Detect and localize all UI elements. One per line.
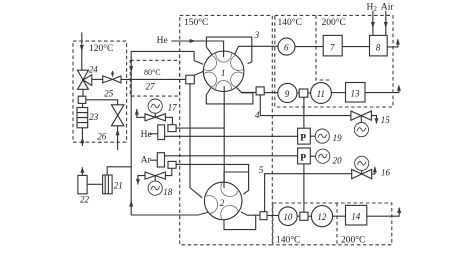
svg-text:6: 6	[284, 43, 289, 53]
detector 11	[311, 83, 332, 104]
vent after 14	[367, 208, 399, 216]
wire Ar to restrictor	[150, 159, 157, 161]
gauge 20	[316, 149, 330, 163]
wire square to 12	[308, 215, 311, 217]
wire P2 to square 10/12	[303, 164, 305, 212]
absorber 21	[103, 175, 113, 194]
svg-text:120°C: 120°C	[89, 43, 113, 54]
svg-text:24: 24	[89, 65, 99, 75]
valve 24 (3-way)	[78, 70, 92, 89]
wire 22 to 21	[87, 183, 103, 185]
rotary valve 2 slot SE	[221, 205, 239, 219]
vent arrow below 23	[80, 137, 84, 144]
He carrier arrow	[190, 39, 197, 43]
pressure regulator 18 gauge	[148, 181, 162, 195]
wire 12 to 14	[333, 215, 346, 217]
wire P1 to square 9/11	[303, 97, 305, 128]
carrier line valve1 S to valve2 N	[223, 86, 225, 184]
wire 80C line valve25 to port square	[121, 78, 186, 80]
vent after 13	[365, 86, 399, 93]
thermostat box 140C bottom	[273, 203, 392, 245]
gauge of valve 15	[360, 116, 362, 123]
port square 4	[256, 87, 264, 95]
regulator 17 valve	[145, 114, 165, 121]
svg-text:80°C: 80°C	[144, 68, 161, 77]
svg-text:8: 8	[376, 43, 381, 53]
fitting square 10/12	[300, 212, 308, 220]
svg-text:19: 19	[333, 133, 343, 143]
pump 22	[78, 175, 87, 193]
port square W of valve 1	[186, 75, 195, 84]
regulator 18 valve	[145, 172, 165, 179]
detector 9	[278, 83, 297, 102]
fitting square below valve 24	[78, 96, 86, 103]
methanator 14	[346, 205, 367, 225]
detector 10	[279, 207, 298, 226]
thermostat box 150C	[180, 15, 273, 244]
fitting square Ar carrier	[168, 161, 176, 168]
wire 10 to square	[297, 215, 300, 217]
svg-text:200°C: 200°C	[341, 235, 365, 246]
wire He carrier to valve 1	[176, 127, 224, 129]
svg-text:18: 18	[163, 187, 173, 197]
divider 140C/200C bottom	[336, 203, 338, 245]
valve 25	[103, 76, 121, 83]
rotary valve 1 stator top	[206, 37, 251, 64]
svg-text:17: 17	[168, 103, 178, 113]
vent arrow above 22	[80, 167, 84, 173]
wire 6 to 7	[295, 46, 323, 48]
svg-text:He: He	[157, 36, 168, 46]
Air line	[385, 11, 387, 35]
wire square to column 23	[82, 103, 84, 107]
valve 26	[111, 105, 124, 126]
svg-text:9: 9	[285, 89, 290, 99]
rotary valve 1 slot SW	[204, 72, 217, 87]
wire port4 to valve 15	[260, 95, 351, 116]
vent after valve 15	[371, 116, 376, 124]
valve 25 actuator arrow	[112, 71, 114, 77]
pressure sensor P1	[298, 128, 311, 144]
wire 11 to 13	[331, 92, 345, 94]
svg-text:10: 10	[283, 212, 293, 222]
rotary valve 1 slot S	[216, 81, 232, 91]
wire valve24 to square	[82, 89, 84, 96]
svg-text:25: 25	[104, 88, 114, 98]
wire Ar carrier to valve 2	[176, 164, 249, 172]
svg-text:140°C: 140°C	[276, 235, 300, 246]
vent arrow below 26	[116, 129, 120, 136]
svg-text:26: 26	[97, 132, 107, 142]
svg-text:14: 14	[351, 211, 361, 221]
methanator 7	[323, 35, 342, 56]
wire junction to absorber 21	[107, 167, 131, 175]
svg-text:7: 7	[330, 43, 335, 53]
wire 17 to fitting	[165, 117, 172, 124]
thermostat box 27 (80C)	[130, 60, 179, 96]
wire valve2 E to port square	[241, 212, 260, 215]
wire He restrictor to P1	[165, 135, 298, 137]
svg-text:15: 15	[381, 115, 391, 125]
rotary valve 2 slot W	[205, 196, 218, 214]
wire valve1 NE to detector 6	[235, 46, 278, 54]
thermostat box 200C top	[316, 15, 331, 80]
wire 7 to 8	[342, 46, 369, 48]
regulator 18 vent	[138, 176, 145, 185]
detector 12	[311, 206, 332, 227]
thermostat box 140C top	[275, 15, 393, 107]
wire square5 to 10	[267, 215, 279, 217]
sample inlet arrow	[80, 45, 84, 52]
wire W square down to valve 2	[190, 84, 202, 198]
wire valve24 to valve25	[92, 78, 103, 80]
rotary valve 1 port N stub	[223, 50, 225, 57]
rotary valve 1 slot SE	[231, 72, 244, 87]
rotary valve 1 rotor	[203, 51, 244, 92]
diagonal square to rotor	[194, 71, 204, 75]
svg-text:23: 23	[89, 112, 99, 122]
svg-text:22: 22	[80, 195, 90, 205]
wire port4 to detector 9	[264, 92, 278, 94]
vent collection wire	[131, 51, 208, 215]
svg-text:27: 27	[146, 82, 156, 92]
vent wire down arrow	[129, 66, 133, 73]
pressure sensor P2	[298, 148, 311, 164]
svg-text:140°C: 140°C	[278, 17, 302, 28]
H2 line	[372, 11, 374, 35]
svg-text:1: 1	[221, 68, 226, 78]
svg-text:16: 16	[381, 168, 391, 178]
svg-text:150°C: 150°C	[184, 17, 208, 28]
svg-text:H2: H2	[367, 2, 378, 13]
vent line below 26	[117, 126, 119, 150]
rotary valve 1 stator bottom	[206, 87, 253, 104]
wire valve1 SE to port 4	[242, 91, 256, 93]
rotary valve 2 rotor	[204, 182, 242, 220]
needle valve 15	[351, 111, 372, 120]
wire 18 to fitting	[165, 168, 171, 175]
wire P2 to gauge 20	[310, 155, 315, 157]
wire He to restrictor	[150, 133, 158, 135]
svg-text:13: 13	[351, 89, 361, 99]
svg-text:200°C: 200°C	[322, 17, 346, 28]
column 23	[77, 108, 88, 128]
vent line below 23	[81, 128, 83, 146]
detector 6	[278, 38, 295, 55]
gauge of valve 16	[361, 170, 363, 174]
svg-text:2: 2	[220, 198, 225, 208]
regulator 17 vent	[137, 109, 145, 117]
svg-text:Air: Air	[381, 2, 395, 12]
pressure regulator 17 gauge	[148, 99, 162, 113]
wire square to 11	[308, 92, 311, 94]
sample inlet line	[81, 32, 83, 70]
rotary valve 2 slot NE	[221, 182, 239, 196]
rotary valve 1 slot NW	[204, 55, 217, 70]
fitting square He carrier	[168, 125, 176, 132]
rotary valve 1 slot N	[216, 53, 232, 63]
restrictor Ar	[157, 153, 164, 167]
detector 8 (FID)	[370, 35, 388, 56]
rotary valve 2 port N stub	[223, 182, 225, 188]
needle valve 16	[352, 169, 372, 178]
gauge 19	[315, 129, 329, 143]
rotary valve 2 stator bottom	[224, 215, 256, 230]
svg-text:20: 20	[333, 155, 343, 165]
wire Ar restrictor to P2	[165, 155, 298, 157]
restrictor He	[158, 125, 165, 140]
vent wire up arrow	[129, 200, 133, 207]
svg-text:3: 3	[254, 30, 260, 40]
vent after valve 16	[372, 167, 375, 174]
rotary valve 2 stator top	[224, 172, 249, 194]
svg-text:12: 12	[317, 212, 327, 222]
port square 5 line	[260, 212, 267, 220]
svg-text:P: P	[300, 134, 306, 144]
wire 9 to square	[297, 92, 299, 94]
vent line above 22	[81, 167, 83, 175]
rotary valve 1 slot NE	[231, 55, 244, 70]
svg-text:11: 11	[317, 89, 325, 99]
svg-text:5: 5	[259, 165, 264, 175]
wire port5 to valve 16	[265, 174, 352, 212]
He carrier wire to valve 1 port N	[171, 41, 223, 57]
svg-text:P: P	[300, 153, 306, 163]
methanator 13	[346, 83, 366, 103]
svg-text:4: 4	[255, 110, 260, 120]
wire P1 to gauge 19	[310, 135, 315, 137]
svg-text:He: He	[141, 130, 152, 140]
wire square to valve 26	[86, 100, 118, 105]
thermostat box 120C	[73, 41, 127, 142]
vent after 8	[387, 40, 398, 47]
fitting square 9/11	[299, 89, 308, 97]
svg-text:21: 21	[114, 180, 123, 190]
